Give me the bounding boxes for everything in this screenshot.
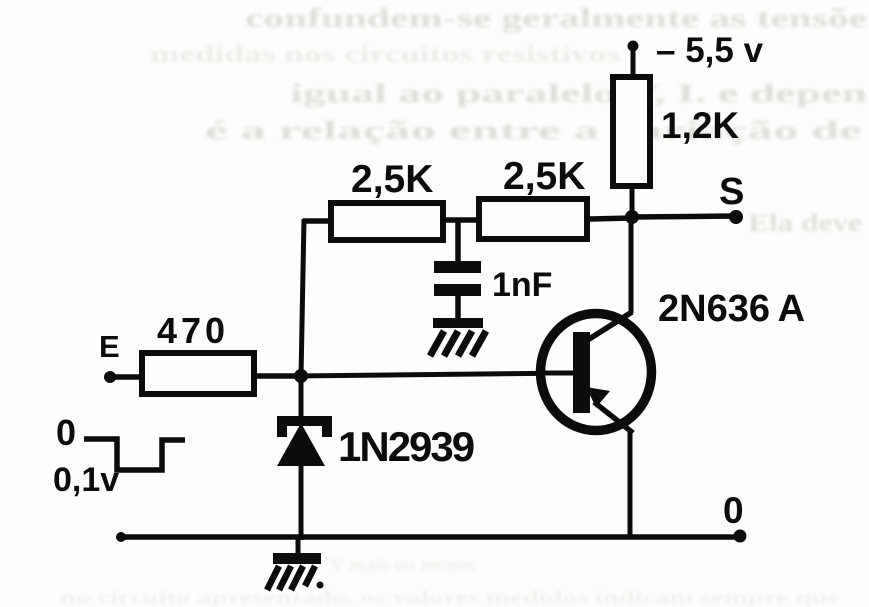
ground (main) (267, 553, 324, 590)
svg-text:igual ao paralelo V, I. e depe: igual ao paralelo V, I. e depen (290, 79, 868, 108)
svg-text:é a relação entre a variação d: é a relação entre a variação de (205, 116, 862, 145)
svg-text:1,2K: 1,2K (661, 105, 739, 146)
terminal E (104, 371, 116, 383)
wire: R1 left lead (303, 218, 328, 224)
wire: collector vertical (S junction to transistor) (629, 218, 634, 313)
transistor emitter arrowhead (PNP) (586, 387, 610, 408)
terminal 0 (output) (734, 530, 747, 543)
svg-text:0: 0 (723, 490, 744, 531)
svg-text:E: E (99, 329, 120, 364)
svg-text:1N2939: 1N2939 (338, 423, 474, 470)
wire: 1,2K bottom lead (630, 189, 635, 218)
svg-text:470: 470 (157, 310, 229, 351)
svg-text:V mais ou menos: V mais ou menos (330, 554, 475, 576)
wire: 470 to base junction (257, 373, 302, 379)
svg-text:1nF: 1nF (492, 266, 552, 304)
svg-text:S: S (719, 171, 744, 213)
terminal bottom-left (116, 532, 126, 542)
diode 1N2939 (tunnel) cathode bracket (277, 416, 332, 437)
capacitor C 1nF (434, 261, 481, 296)
svg-text:2N636 A: 2N636 A (658, 288, 805, 330)
wire: R1-R2 link (446, 217, 476, 223)
terminal S (729, 210, 743, 224)
svg-text:medidas nos circuitos resistiv: medidas nos circuitos resistivos (150, 42, 620, 68)
wire: S junction to S terminal (632, 216, 737, 217)
resistor R1 2,5K (left) (331, 203, 443, 240)
resistor R2 2,5K (right) (479, 199, 587, 239)
svg-text:confundem-se geralmente as ten: confundem-se geralmente as tensõe (245, 3, 867, 33)
waveform: input pulse trace (84, 439, 185, 470)
svg-text:0: 0 (56, 412, 76, 453)
resistor 1,2K (613, 77, 650, 186)
wire: capacitor to ground (455, 296, 461, 320)
resistor 470 (142, 353, 254, 394)
transistor emitter diagonal (594, 402, 633, 433)
wire: emitter vertical (transistor to bottom rail) (628, 431, 633, 539)
diode 1N2939 anode triangle (277, 423, 325, 466)
transistor base wire inside circle (540, 371, 576, 376)
node: S junction (625, 210, 639, 224)
wire: diode to bottom rail (299, 464, 304, 540)
svg-text:2,5K: 2,5K (503, 155, 585, 198)
wire: rail to main ground (296, 537, 301, 555)
wire: R2 right lead to S junction (590, 218, 632, 219)
wire: bottom rail (121, 534, 740, 540)
wire: base junction to transistor base (301, 373, 576, 376)
svg-text:– 5,5 v: – 5,5 v (656, 31, 764, 70)
ground (capacitor) (430, 318, 486, 356)
svg-text:2,5K: 2,5K (351, 158, 433, 201)
wire: E to 470 (110, 374, 139, 380)
svg-text:0,1v: 0,1v (53, 461, 119, 499)
svg-text:Ela deve: Ela deve (748, 210, 862, 237)
transistor collector diagonal (586, 312, 632, 341)
node: base junction (294, 369, 308, 383)
transistor Q1 2N636A body circle (541, 314, 652, 431)
wire: junction to diode (299, 376, 304, 418)
wire: capacitor drop (455, 220, 461, 263)
svg-text:no circuito apresentado, os va: no circuito apresentado, os valores medi… (60, 588, 841, 607)
transistor base bar (573, 332, 590, 413)
wire: left vertical (R1 to base junction) (301, 219, 304, 377)
power terminal -5,5v (628, 41, 639, 77)
